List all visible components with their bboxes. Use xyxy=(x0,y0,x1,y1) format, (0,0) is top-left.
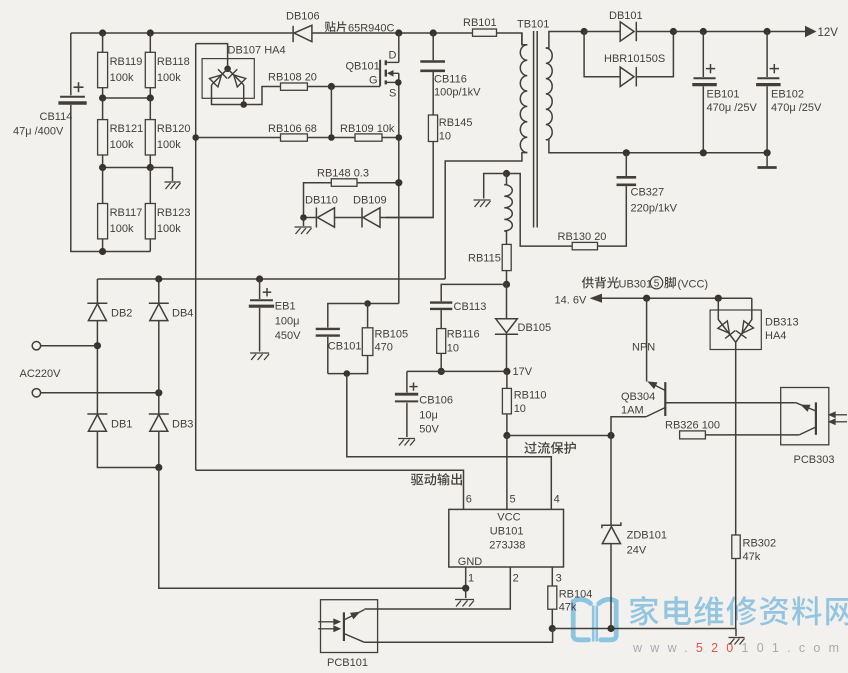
svg-text:DB1: DB1 xyxy=(111,419,132,431)
svg-text:10: 10 xyxy=(447,343,459,355)
label RB123 100k xyxy=(157,207,191,235)
svg-text:2: 2 xyxy=(513,573,519,585)
svg-text:100k: 100k xyxy=(157,223,181,235)
capacitor CB106 xyxy=(395,383,418,402)
label CB114 xyxy=(13,111,72,138)
wire aux ground branch xyxy=(484,174,507,199)
wire QB304 collector to node xyxy=(611,417,646,436)
svg-text:CB327: CB327 xyxy=(631,187,665,199)
diode DB1 xyxy=(87,414,107,431)
label UB101 GND xyxy=(458,556,483,568)
svg-text:DB2: DB2 xyxy=(111,308,132,320)
junction RB104 bottom node xyxy=(549,625,556,632)
wire top rail from DB106 cathode to RB101 xyxy=(312,32,473,34)
label pin 2 xyxy=(513,573,519,585)
svg-text:10μ: 10μ xyxy=(419,410,438,422)
resistor RB121 xyxy=(98,120,108,155)
label DB106 xyxy=(286,11,320,23)
wire RB105 top row to CB101 xyxy=(328,304,368,328)
svg-text:4: 4 xyxy=(554,494,560,506)
transformer TB101 core xyxy=(534,31,538,228)
label QB101 xyxy=(346,61,380,73)
label DB4 xyxy=(172,308,193,320)
transistor PCB101 phototransistor xyxy=(344,610,365,643)
label CB327 220p/1kV xyxy=(631,187,678,215)
wire DB2 anode to AC1 node xyxy=(96,321,98,414)
wire RB117 bottom lead xyxy=(102,239,104,252)
junction EB101 bottom xyxy=(700,149,707,156)
label TB101 xyxy=(517,19,549,31)
junction rectifier output xyxy=(670,28,677,35)
svg-text:273J38: 273J38 xyxy=(489,540,525,552)
svg-text:RB130 20: RB130 20 xyxy=(558,231,607,243)
wire RB123 bottom lead xyxy=(149,239,151,252)
wire drive output to UB101 pin 6 xyxy=(196,470,464,509)
label QB101 pin G xyxy=(369,75,378,87)
wire EB1 top lead xyxy=(259,279,261,299)
ground CB106 ground xyxy=(398,439,415,446)
wire RB105 top lead xyxy=(367,304,369,328)
wire DB105 cathode to 17V node xyxy=(506,334,508,371)
label PCB101 xyxy=(327,657,368,669)
junction RB106 row at x196 xyxy=(192,134,199,141)
svg-text:1: 1 xyxy=(468,573,474,585)
svg-text:17V: 17V xyxy=(513,366,533,378)
wire CB106 bottom lead xyxy=(406,403,408,437)
label RB120 100k xyxy=(157,123,191,151)
svg-text:RB120: RB120 xyxy=(157,123,191,135)
wire DB4 cathode lead xyxy=(158,279,160,303)
junction DB4 top xyxy=(155,275,162,282)
junction CB327 top xyxy=(623,149,630,156)
wire EB101 bottom lead xyxy=(702,86,704,153)
label HBR10150S xyxy=(604,53,665,65)
svg-text:5: 5 xyxy=(510,494,516,506)
label RB109 10k xyxy=(340,123,395,135)
svg-text:HBR10150S: HBR10150S xyxy=(604,53,665,65)
wire QB101 drain to top rail xyxy=(398,33,400,62)
wire CB101/RB105 bottom row xyxy=(328,356,368,374)
svg-text:100μ: 100μ xyxy=(275,316,300,328)
node 14.6V arrow xyxy=(590,294,602,303)
label RB148 0.3 xyxy=(317,168,369,180)
label RB106 68 xyxy=(268,123,317,135)
svg-text:RB123: RB123 xyxy=(157,207,191,219)
wire between DB110 and DB109 xyxy=(335,217,363,219)
wire DB107 left diode diagonal xyxy=(212,69,228,85)
wire DB3 anode down xyxy=(158,431,160,467)
wire primary top lead xyxy=(522,33,527,45)
resistor RB117 xyxy=(98,204,108,239)
wire CB101 bottom lead xyxy=(327,337,329,374)
svg-text:ZDB101: ZDB101 xyxy=(627,530,667,542)
opto box DB107 xyxy=(202,59,254,99)
svg-text:RB118: RB118 xyxy=(157,56,190,68)
svg-text:CB113: CB113 xyxy=(454,301,487,313)
label RB145 10 xyxy=(439,117,473,143)
label 14.6V xyxy=(555,295,587,307)
svg-text:RB105: RB105 xyxy=(375,329,409,341)
wire EB101 top lead xyxy=(702,32,704,78)
wire RB106 row left xyxy=(196,137,281,139)
wire DB101 cathode lead xyxy=(636,31,673,33)
svg-text:RB119: RB119 xyxy=(110,56,143,68)
wire primary bottom lead to DC rail riser xyxy=(445,153,527,279)
wire backlight VCC row xyxy=(602,297,752,299)
svg-text:12V: 12V xyxy=(818,27,839,39)
wire DB2 cathode lead xyxy=(96,279,98,303)
svg-text:10: 10 xyxy=(514,403,526,415)
diode DB313 left element xyxy=(717,321,735,339)
resistor RB326 xyxy=(680,431,706,439)
wire row joining RB121/RB120 bottoms xyxy=(103,155,151,168)
resistor RB119 xyxy=(98,52,108,87)
resistor RB109 xyxy=(355,134,382,141)
wire RB145 down and left to clamp diode row xyxy=(386,142,433,218)
svg-text:100k: 100k xyxy=(110,72,134,84)
inductor TB101 secondary winding xyxy=(546,48,552,140)
wire UB101 pin 2 to PCB101 collector xyxy=(364,567,510,609)
label AC220V xyxy=(20,368,62,380)
svg-text:5: 5 xyxy=(654,279,660,290)
junction RB105 top xyxy=(364,300,371,307)
wire RB101 to primary top xyxy=(497,33,522,45)
label RB108 20 xyxy=(268,72,317,84)
svg-text:100k: 100k xyxy=(157,139,181,151)
wire DB313 left lead xyxy=(718,298,735,342)
junction CB116 top on top rail xyxy=(430,29,437,36)
svg-text:RB121: RB121 xyxy=(110,123,144,135)
svg-text:CB101: CB101 xyxy=(328,341,362,353)
capacitor EB1 xyxy=(249,288,274,306)
junction QB101 source xyxy=(395,79,402,86)
svg-text:EB1: EB1 xyxy=(275,301,296,313)
svg-text:(VCC): (VCC) xyxy=(678,279,709,291)
wire RB104 bottom lead xyxy=(551,609,553,628)
junction EB1 top xyxy=(256,275,263,282)
resistor RB110 xyxy=(502,388,511,414)
svg-text:DB105: DB105 xyxy=(518,322,552,334)
junction RB119 top xyxy=(99,29,106,36)
svg-text:RB116: RB116 xyxy=(447,329,480,341)
svg-text:RB109 10k: RB109 10k xyxy=(340,123,395,135)
wire AC terminal2 to bridge xyxy=(41,392,159,394)
svg-text:65R940C: 65R940C xyxy=(348,22,395,34)
wire RB120 top lead xyxy=(149,98,151,120)
wire RB148 left lead xyxy=(304,183,332,218)
wire RB119 top lead xyxy=(102,33,104,52)
diode DB107 right element xyxy=(228,69,246,87)
wire RB110 top lead xyxy=(506,371,508,388)
svg-text:DB4: DB4 xyxy=(172,308,193,320)
wire between RB106 and RB109 xyxy=(307,137,355,139)
wire 17V row to CB106 xyxy=(407,370,507,372)
label DB101 xyxy=(609,10,643,22)
wire DB4 anode to AC2 node xyxy=(158,321,160,414)
wire top rail corner down to CB114 xyxy=(70,33,72,95)
svg-text:S: S xyxy=(389,88,396,100)
svg-text:RB302: RB302 xyxy=(743,538,777,550)
capacitor CB116 xyxy=(420,62,445,71)
svg-text:QB101: QB101 xyxy=(346,61,380,73)
svg-text:6: 6 xyxy=(466,494,472,506)
opto PCB303 light arrows xyxy=(829,412,847,424)
junction overcurrent node at pin5 xyxy=(503,432,510,439)
svg-text:100k: 100k xyxy=(157,72,181,84)
wire DB101 anode lead xyxy=(584,31,620,33)
svg-text:AC220V: AC220V xyxy=(20,368,62,380)
svg-text:VCC: VCC xyxy=(497,512,520,524)
wire bridge negative return to UB101 pin1 row xyxy=(159,468,466,589)
wire CB106 top lead xyxy=(406,371,408,392)
wire CB327 top lead xyxy=(625,153,627,176)
wire top rail from CB114 to DB106 anode xyxy=(71,32,293,34)
junction QB101 drain on top rail xyxy=(395,29,402,36)
resistor RB106 xyxy=(281,134,308,141)
svg-text:220p/1kV: 220p/1kV xyxy=(631,203,678,215)
wire RB148 right lead xyxy=(357,182,399,184)
ic UB101 box xyxy=(449,509,564,567)
label RB115 xyxy=(468,253,501,265)
svg-text:RB115: RB115 xyxy=(468,253,501,265)
resistor RB123 xyxy=(145,204,155,239)
label CB106 10u 50V xyxy=(419,395,453,436)
svg-text:UB101: UB101 xyxy=(490,526,524,538)
wire UB101 pin 1 to return row xyxy=(465,567,467,588)
svg-text:RB104: RB104 xyxy=(559,589,593,601)
diode DB2 xyxy=(87,303,107,320)
label pin 3 xyxy=(556,573,562,585)
wire UB101 pin 5 lead xyxy=(506,436,508,510)
junction EB102 top xyxy=(764,28,771,35)
transistor QB304 xyxy=(646,382,665,417)
wire gate node down to RB106/RB109 row xyxy=(330,87,332,138)
label CB113 xyxy=(454,301,487,313)
junction gate-divider node xyxy=(328,134,335,141)
wire branch to CB113 xyxy=(441,284,506,301)
wire DB1 anode down xyxy=(97,431,158,467)
wire CB113 to RB116 xyxy=(440,310,442,329)
svg-text:PCB101: PCB101 xyxy=(327,657,368,669)
wire DB313 output vertex down to RB302 xyxy=(735,342,737,535)
junction EB101 top xyxy=(700,28,707,35)
diode DB101 xyxy=(620,22,636,41)
junction RB120 bottom row xyxy=(147,164,154,171)
svg-text:UB301: UB301 xyxy=(619,279,653,291)
wire zener top lead xyxy=(610,436,612,526)
junction RB148 on source line xyxy=(395,179,402,186)
svg-text:TB101: TB101 xyxy=(517,19,549,31)
wire CB116 top lead xyxy=(432,33,434,60)
wire 12V output rail xyxy=(673,31,805,33)
wire bottom bus xyxy=(552,628,736,630)
capacitor CB114 xyxy=(58,82,86,103)
junction gate node xyxy=(328,83,335,90)
junction 17V node xyxy=(503,368,510,375)
junction DB107 top vertex xyxy=(224,66,231,73)
wire RB130 left lead to aux winding xyxy=(507,174,573,247)
svg-text:47μ /400V: 47μ /400V xyxy=(13,126,64,138)
resistor RB148 xyxy=(331,179,357,187)
label RB302 47k xyxy=(743,538,777,564)
svg-text:RB148 0.3: RB148 0.3 xyxy=(317,168,369,180)
svg-text:RB106 68: RB106 68 xyxy=(268,123,317,135)
wire CB116 to RB145 xyxy=(432,72,434,115)
label UB101 xyxy=(490,526,524,538)
label DB3 xyxy=(172,419,193,431)
junction pin1 return node xyxy=(462,585,469,592)
label EB101 470u/25V xyxy=(707,89,758,115)
label pin 1 xyxy=(468,573,474,585)
diode DB4 xyxy=(149,303,169,320)
svg-text:47k: 47k xyxy=(559,602,577,614)
junction aux winding top xyxy=(503,170,510,177)
label RB117 100k xyxy=(110,207,143,235)
label 12V xyxy=(818,27,839,39)
wire overcurrent row to QB304 collector node xyxy=(507,435,611,437)
ground chain mid ground xyxy=(165,182,181,189)
inductor TB101 primary winding xyxy=(520,45,527,153)
svg-text:PCB303: PCB303 xyxy=(794,454,835,466)
junction QB304 collector node xyxy=(607,432,614,439)
junction DB313 left lead node xyxy=(715,295,722,302)
node AC terminal 2 xyxy=(32,389,40,397)
wire source line corner to RB105 top xyxy=(368,303,399,305)
svg-text:470μ /25V: 470μ /25V xyxy=(771,102,822,114)
svg-text:DB107 HA4: DB107 HA4 xyxy=(228,45,286,57)
wire RB115 bottom to VCC node xyxy=(506,271,508,285)
resistor RB120 xyxy=(145,120,155,155)
label PCB303 xyxy=(794,454,835,466)
svg-text:GND: GND xyxy=(458,556,483,568)
diode DB105 xyxy=(495,319,518,335)
opto box PCB101 xyxy=(321,600,378,653)
wire EB1 bottom lead xyxy=(259,308,261,352)
capacitor CB101 xyxy=(316,329,340,336)
wire node vertical x196 down to drive output row xyxy=(195,44,197,471)
wire RB110 bottom lead xyxy=(506,414,508,436)
wire DB313 right lead xyxy=(736,298,752,342)
svg-text:47k: 47k xyxy=(743,551,761,563)
svg-text:10: 10 xyxy=(439,131,451,143)
svg-text:DB110: DB110 xyxy=(305,195,338,207)
label pin 6 xyxy=(466,494,472,506)
label RB104 47k xyxy=(559,589,593,614)
wire RB123 top lead xyxy=(149,168,151,204)
wire row joining RB119/RB118 bottoms xyxy=(103,88,151,98)
resistor RB116 xyxy=(437,329,446,354)
wire rectified DC rail xyxy=(97,278,445,280)
svg-text:DB106: DB106 xyxy=(286,11,320,23)
wire CB114 bottom to resistor-chain bottom xyxy=(71,105,151,252)
svg-text:NPN: NPN xyxy=(632,342,655,354)
svg-text:RB145: RB145 xyxy=(439,117,473,129)
label CB116 100p/1kV xyxy=(434,74,481,99)
label DB109 xyxy=(353,195,387,207)
label 贴片65R940C xyxy=(325,21,395,34)
label UB101 VCC xyxy=(497,512,520,524)
wire secondary ground rail xyxy=(626,152,767,154)
diode DB109 xyxy=(362,208,380,228)
wire DB107 left lead down xyxy=(212,85,281,105)
svg-text:DB109: DB109 xyxy=(353,195,387,207)
diode DB106 xyxy=(293,25,312,42)
label RB101 xyxy=(463,17,497,29)
svg-text:100p/1kV: 100p/1kV xyxy=(434,87,481,99)
resistor RB130 xyxy=(572,242,597,249)
wire DB107 top feed xyxy=(196,44,228,69)
label EB1 100u 450V xyxy=(275,301,301,343)
wire PCB101 emitter to RB104 node xyxy=(364,629,552,643)
label pin 4 xyxy=(554,494,560,506)
label 驱动输出 xyxy=(411,473,462,485)
svg-text:HA4: HA4 xyxy=(765,330,786,342)
junction DB107 bottom node xyxy=(240,101,247,108)
wire DB107 right lead down xyxy=(243,85,245,105)
label DB107 HA4 xyxy=(228,45,286,57)
wire DB107 right diode diagonal xyxy=(228,69,244,85)
wire RB302 bottom lead xyxy=(735,559,737,629)
wire bus ground stub xyxy=(735,629,737,637)
label CB101 xyxy=(328,341,362,353)
svg-text:RB108 20: RB108 20 xyxy=(268,72,317,84)
wire EB102 to ground bar xyxy=(766,153,768,167)
opto box PCB303 xyxy=(781,388,829,445)
watermark logo and site text xyxy=(573,596,848,655)
junction RB118 top xyxy=(147,29,154,36)
label 过流保护 xyxy=(524,442,575,454)
resistor RB108 xyxy=(281,83,308,90)
label UB101 273J38 xyxy=(489,540,525,552)
svg-text:G: G xyxy=(369,75,378,87)
ground clamp ground xyxy=(295,227,312,234)
resistor RB302 xyxy=(732,535,740,559)
svg-text:D: D xyxy=(389,50,397,62)
wire QB304 base to PCB303 xyxy=(665,402,796,404)
svg-text:DB313: DB313 xyxy=(765,317,799,329)
junction DB101 anode node xyxy=(581,28,588,35)
svg-text:100k: 100k xyxy=(110,139,134,151)
wire DB109 to CB116 branch xyxy=(380,217,433,219)
svg-text:EB101: EB101 xyxy=(707,89,740,101)
capacitor EB101 xyxy=(692,64,717,85)
diode DB107 left element xyxy=(209,69,227,87)
wire HBR cathode up to output rail xyxy=(636,32,673,77)
resistor RB145 xyxy=(428,115,437,142)
svg-text:DB101: DB101 xyxy=(609,10,643,22)
resistor RB115 xyxy=(502,244,511,270)
wire EB102 top lead xyxy=(766,32,768,78)
wire QB101 source down the sense line xyxy=(398,73,400,303)
node AC terminal 1 xyxy=(32,342,40,350)
svg-text:1AM: 1AM xyxy=(621,405,644,417)
label QB101 pin S xyxy=(389,88,396,100)
opto PCB101 light arrows xyxy=(318,619,339,631)
wire clamp diode row xyxy=(304,217,317,219)
label 17V node xyxy=(513,366,533,378)
junction RB109 right on source line xyxy=(396,134,403,141)
capacitor EB102 xyxy=(756,64,781,85)
label DB1 xyxy=(111,419,132,431)
svg-text:RB117: RB117 xyxy=(110,207,143,219)
transistor QB101 MOSFET xyxy=(380,60,399,86)
junction RB119 bottom row xyxy=(99,94,106,101)
label DB313 HA4 xyxy=(765,317,799,343)
label DB105 xyxy=(518,322,552,334)
svg-text:3: 3 xyxy=(556,573,562,585)
wire aux top lead xyxy=(504,174,506,185)
svg-text:RB110: RB110 xyxy=(514,390,547,402)
